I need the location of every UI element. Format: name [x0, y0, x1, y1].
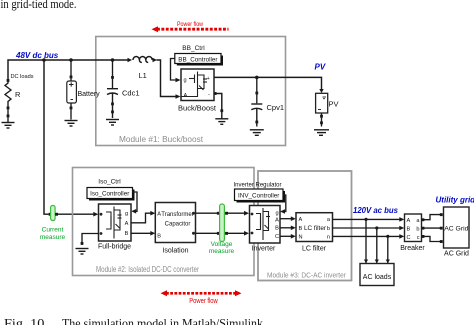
svg-text:LC filter: LC filter	[304, 225, 327, 232]
node tap phase A	[364, 218, 367, 221]
block Buck/Boost	[181, 69, 214, 101]
svg-text:Power flow: Power flow	[189, 298, 218, 305]
resistor R (zigzag)	[5, 81, 11, 105]
svg-text:A: A	[275, 218, 279, 224]
wire inverter C to LC filter N	[280, 234, 296, 239]
power flow dashed arrow (bottom, double-headed)	[161, 290, 242, 296]
svg-text:Full-bridge: Full-bridge	[98, 244, 131, 251]
svg-text:120V ac bus: 120V ac bus	[353, 206, 399, 215]
svg-text:measure: measure	[40, 234, 66, 241]
svg-text:DC loads: DC loads	[11, 74, 34, 80]
svg-text:Inverter: Inverter	[252, 246, 276, 253]
module #2 box: Isolated DC-DC converter	[73, 168, 255, 276]
svg-text:AC loads: AC loads	[363, 274, 392, 281]
wire phase C down to AC loads	[386, 236, 390, 263]
IGBT icon inside Inverter	[256, 208, 270, 240]
svg-text:C: C	[407, 235, 411, 241]
svg-text:n: n	[327, 235, 330, 241]
svg-text:Module #1: Buck/boost: Module #1: Buck/boost	[119, 135, 204, 144]
svg-text:LC filter: LC filter	[302, 246, 327, 253]
svg-text:B: B	[125, 231, 129, 237]
wire: 48V dc bus	[8, 60, 129, 81]
controller Iso_Controller (with shadow)	[89, 190, 135, 201]
wire BB_Controller to g	[171, 59, 177, 81]
block PV source	[316, 93, 328, 113]
node: bus junction to module2 feed	[42, 58, 46, 62]
wire breaker b to grid	[422, 227, 442, 229]
svg-text:Cdc1: Cdc1	[122, 89, 140, 98]
svg-text:Utility grid: Utility grid	[436, 196, 474, 205]
svg-text:Battery: Battery	[78, 91, 101, 98]
IGBT icon inside Full-bridge	[106, 207, 122, 239]
battery block	[67, 81, 77, 103]
svg-text:BB_Controller: BB_Controller	[178, 56, 217, 63]
svg-text:A: A	[407, 218, 411, 224]
wire breaker a to grid	[422, 215, 442, 220]
wire Cpv1 branch	[256, 77, 258, 103]
node after current measure	[55, 213, 58, 216]
wire below PV	[321, 113, 323, 127]
wire from + to PV corner	[214, 77, 322, 89]
svg-text:INV_Controller: INV_Controller	[238, 192, 279, 199]
module #3 box: DC-AC inverter	[258, 171, 352, 281]
svg-text:BB_Ctrl: BB_Ctrl	[182, 45, 205, 52]
capacitor Cdc1	[107, 89, 118, 118]
svg-text:A: A	[299, 217, 303, 223]
wire transformer to inverter (top)	[196, 212, 245, 214]
wire inverter B to LC filter B	[280, 226, 296, 231]
svg-text:A: A	[125, 221, 129, 227]
svg-text:B: B	[275, 226, 279, 232]
svg-text:Iso_Ctrl: Iso_Ctrl	[98, 179, 121, 186]
controller INV_Controller (with shadow)	[237, 191, 286, 203]
node: bus junction battery	[69, 58, 73, 62]
wire phase B down to AC loads	[375, 228, 379, 264]
node tap phase C	[386, 235, 389, 238]
wire to full-bridge	[58, 213, 94, 215]
svg-text:AC Grid: AC Grid	[444, 226, 468, 233]
svg-text:Inverter Regulator: Inverter Regulator	[234, 182, 283, 189]
wire breaker c to grid	[422, 236, 442, 241]
wire INV_Controller to inverter g	[283, 195, 286, 212]
IGBT icon inside Buck/Boost	[181, 72, 207, 98]
svg-text:B: B	[299, 226, 303, 232]
block Breaker	[405, 214, 422, 242]
block Transformer/Capacitor (Isolation)	[155, 203, 195, 243]
svg-text:Current: Current	[42, 227, 64, 234]
svg-text:B: B	[407, 227, 411, 233]
voltage measure bar	[220, 204, 225, 242]
wire phase A: LC filter a to Breaker A (120V ac bus)	[333, 217, 405, 222]
svg-text:b: b	[416, 227, 419, 233]
current measure bar	[51, 206, 56, 221]
node: junction at Cpv1	[255, 76, 259, 80]
node tap phase B	[375, 226, 378, 229]
module #1 box: Buck/boost	[96, 37, 286, 146]
block AC loads	[360, 264, 394, 286]
svg-text:Fig. 10.: Fig. 10.	[4, 316, 48, 325]
svg-text:Iso_Controller: Iso_Controller	[90, 191, 129, 198]
svg-text:L1: L1	[139, 71, 147, 80]
inductor L1 port arrow left	[128, 58, 133, 62]
svg-text:N: N	[299, 235, 303, 241]
wire phase A down to AC loads	[364, 219, 368, 263]
L1 port arrow right + wire into buck/boost A	[153, 58, 158, 62]
node before current measure	[49, 213, 52, 216]
svg-text:Module #3: DC-AC inverter: Module #3: DC-AC inverter	[267, 271, 346, 280]
wire: dc bus down to module 2	[44, 60, 49, 214]
svg-text:B: B	[157, 234, 161, 240]
svg-text:b: b	[327, 226, 330, 232]
wire L1 to A input	[157, 60, 177, 97]
svg-text:C: C	[275, 234, 279, 240]
ground (full-bridge)	[76, 249, 89, 255]
svg-text:Breaker: Breaker	[400, 245, 425, 252]
wire from - to ground	[214, 94, 222, 113]
ground (below PV)	[314, 130, 329, 136]
node: bus junction Cdc1	[111, 58, 115, 62]
svg-text:Cpv1: Cpv1	[267, 103, 285, 112]
controller BB_Controller (with shadow)	[177, 56, 223, 66]
svg-text:Module #2: Isolated DC-DC conv: Module #2: Isolated DC-DC converter	[96, 265, 199, 274]
wire full-bridge B to transformer B	[131, 232, 151, 234]
svg-text:measure: measure	[209, 248, 235, 255]
svg-text:PV: PV	[329, 100, 339, 109]
wire: bus to battery	[70, 60, 72, 81]
wire transformer to inverter (bottom)	[196, 232, 245, 234]
ground (below Cdc1)	[106, 120, 119, 126]
wire full-bridge lower input to ground	[82, 234, 99, 246]
svg-text:PV: PV	[315, 63, 326, 72]
svg-text:Isolation: Isolation	[162, 248, 188, 255]
svg-text:g: g	[275, 211, 278, 217]
wire inverter A to LC filter A	[280, 216, 296, 221]
PV block port tick	[319, 89, 323, 93]
svg-text:-: -	[208, 92, 210, 98]
block Inverter	[250, 206, 281, 244]
svg-text:g: g	[125, 211, 128, 217]
block LC filter	[296, 213, 333, 242]
ground (below buck/boost -)	[215, 112, 228, 124]
ground (below battery)	[65, 121, 78, 127]
wire: bus to Cdc1	[112, 60, 114, 88]
wire full-bridge A to transformer A	[131, 213, 151, 223]
svg-text:Buck/Boost: Buck/Boost	[178, 104, 217, 113]
svg-text:Power flow: Power flow	[177, 21, 203, 28]
svg-text:g: g	[184, 78, 187, 84]
block Full-bridge	[99, 204, 132, 241]
power flow dashed arrow (top, left-pointing)	[152, 26, 229, 32]
ground (below Cpv1)	[250, 130, 264, 136]
ground (below R)	[2, 123, 15, 129]
svg-text:The simulation model in Matlab: The simulation model in Matlab/Simulink	[62, 316, 263, 325]
wire phase B: LC filter b to Breaker B (120V ac bus)	[333, 226, 405, 231]
block AC Grid	[444, 207, 470, 248]
svg-text:in grid-tied mode.: in grid-tied mode.	[1, 0, 77, 11]
wire phase C: LC filter n to Breaker C (120V ac bus)	[333, 234, 405, 239]
wire below battery	[70, 103, 72, 120]
svg-text:Voltage: Voltage	[211, 241, 233, 248]
svg-text:AC Grid: AC Grid	[444, 251, 469, 258]
wire below R	[7, 105, 9, 123]
svg-text:Capacitor: Capacitor	[165, 222, 191, 228]
svg-text:Transformer: Transformer	[161, 212, 193, 218]
svg-text:48V dc bus: 48V dc bus	[15, 51, 59, 60]
wire Iso_Controller to g port	[133, 192, 138, 211]
capacitor Cpv1	[251, 104, 262, 127]
svg-text:c: c	[417, 235, 420, 241]
svg-text:R: R	[15, 90, 21, 99]
inductor L1	[133, 57, 152, 63]
